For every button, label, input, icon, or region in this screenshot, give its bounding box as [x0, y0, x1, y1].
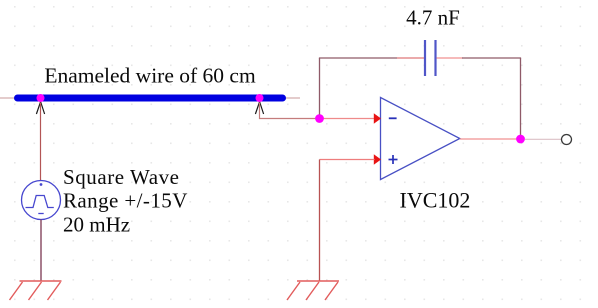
- node C (junction: feedback meets inverting input): [315, 114, 324, 123]
- wire (node C to op-amp inverting input): [320, 118, 375, 120]
- op-amp U1 plus input marking: [389, 155, 398, 164]
- probe arrowhead at node A: [36, 102, 44, 114]
- wire (source VG1 down to ground): [40, 220, 42, 282]
- wire (op-amp output to node D): [460, 138, 517, 140]
- node B (junction dot on enameled wire, right tap): [256, 94, 264, 102]
- wire (node A down to source VG1): [40, 103, 42, 181]
- pin arrow into inverting input: [374, 113, 381, 123]
- ground (at non-inverting input): [287, 281, 339, 300]
- node D (output junction dot): [516, 135, 525, 144]
- svg-text:20 mHz: 20 mHz: [63, 212, 130, 236]
- output terminal (open circle): [562, 135, 572, 145]
- wire (node B down then right to inverting input): [260, 103, 320, 119]
- wire (node D to output terminal): [525, 138, 561, 140]
- wire (net stub left of enameled wire): [0, 97, 18, 99]
- svg-text:Range +/-15V: Range +/-15V: [63, 189, 188, 213]
- wire (non-inverting input down to ground): [319, 160, 321, 282]
- ground (below VG1): [10, 281, 62, 300]
- svg-text:4.7 nF: 4.7 nF: [406, 6, 460, 30]
- node A (junction dot on enameled wire, left tap): [37, 94, 45, 102]
- voltage source VG1 (square wave generator): [22, 181, 61, 220]
- probe arrowhead at node B: [255, 102, 263, 114]
- svg-text:Square Wave: Square Wave: [63, 165, 180, 189]
- wire (feedback right: down to output node D): [520, 58, 522, 135]
- wire (feedback top left: to capacitor left plate): [319, 57, 424, 59]
- wire (non-inverting input to op-amp, horizontal): [320, 159, 375, 161]
- wire (feedback top right: capacitor right plate to output column): [437, 57, 464, 59]
- op-amp U1 IVC102 (triangle body): [381, 98, 460, 180]
- enameled wire L1 (thick blue wire, 60 cm): [18, 95, 283, 102]
- capacitor C1 plates: [425, 40, 436, 76]
- wire (net stub right of enameled wire): [283, 97, 300, 99]
- wire (feedback: node C up to capacitor row): [319, 58, 321, 115]
- svg-text:IVC102: IVC102: [400, 187, 471, 212]
- op-amp U1 minus input marking: [389, 117, 397, 119]
- pin arrow into non-inverting input: [374, 154, 381, 164]
- svg-text:Enameled wire of 60 cm: Enameled wire of 60 cm: [44, 64, 256, 88]
